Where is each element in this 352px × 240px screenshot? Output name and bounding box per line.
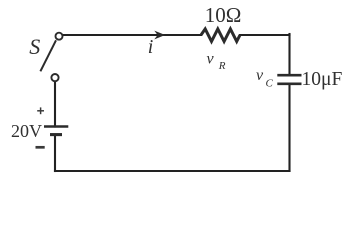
svg-text:S: S (29, 34, 40, 59)
svg-text:20V: 20V (11, 121, 42, 141)
battery minus mark (36, 146, 45, 149)
svg-text:10Ω: 10Ω (205, 3, 242, 27)
wire: bottom return (55, 170, 290, 172)
wire: top, switch to resistor (63, 34, 201, 36)
wire: right side, corner down to capacitor top plate (288, 34, 290, 75)
switch S upper contact circle (56, 33, 63, 40)
battery 20V plates (44, 127, 68, 135)
switch S lower contact circle (51, 74, 58, 81)
capacitor C plates (277, 75, 301, 84)
svg-text:C: C (266, 78, 274, 90)
svg-text:v: v (256, 67, 264, 84)
svg-text:R: R (218, 60, 226, 72)
resistor R zigzag (201, 29, 240, 42)
switch blade (open) (40, 40, 56, 71)
svg-text:v: v (207, 51, 215, 68)
wire: left side, battery positive plate up to switch lower contact (54, 82, 56, 127)
wire: left side, bottom corner up to battery negative plate (54, 135, 56, 171)
svg-text:i: i (148, 36, 154, 58)
wire: top, resistor to top-right corner (240, 34, 290, 36)
current arrowhead i (154, 31, 165, 40)
svg-text:10μF: 10μF (302, 69, 343, 90)
battery plus mark (37, 107, 44, 114)
wire: right side, capacitor bottom plate down to bottom-right corner (288, 85, 290, 172)
